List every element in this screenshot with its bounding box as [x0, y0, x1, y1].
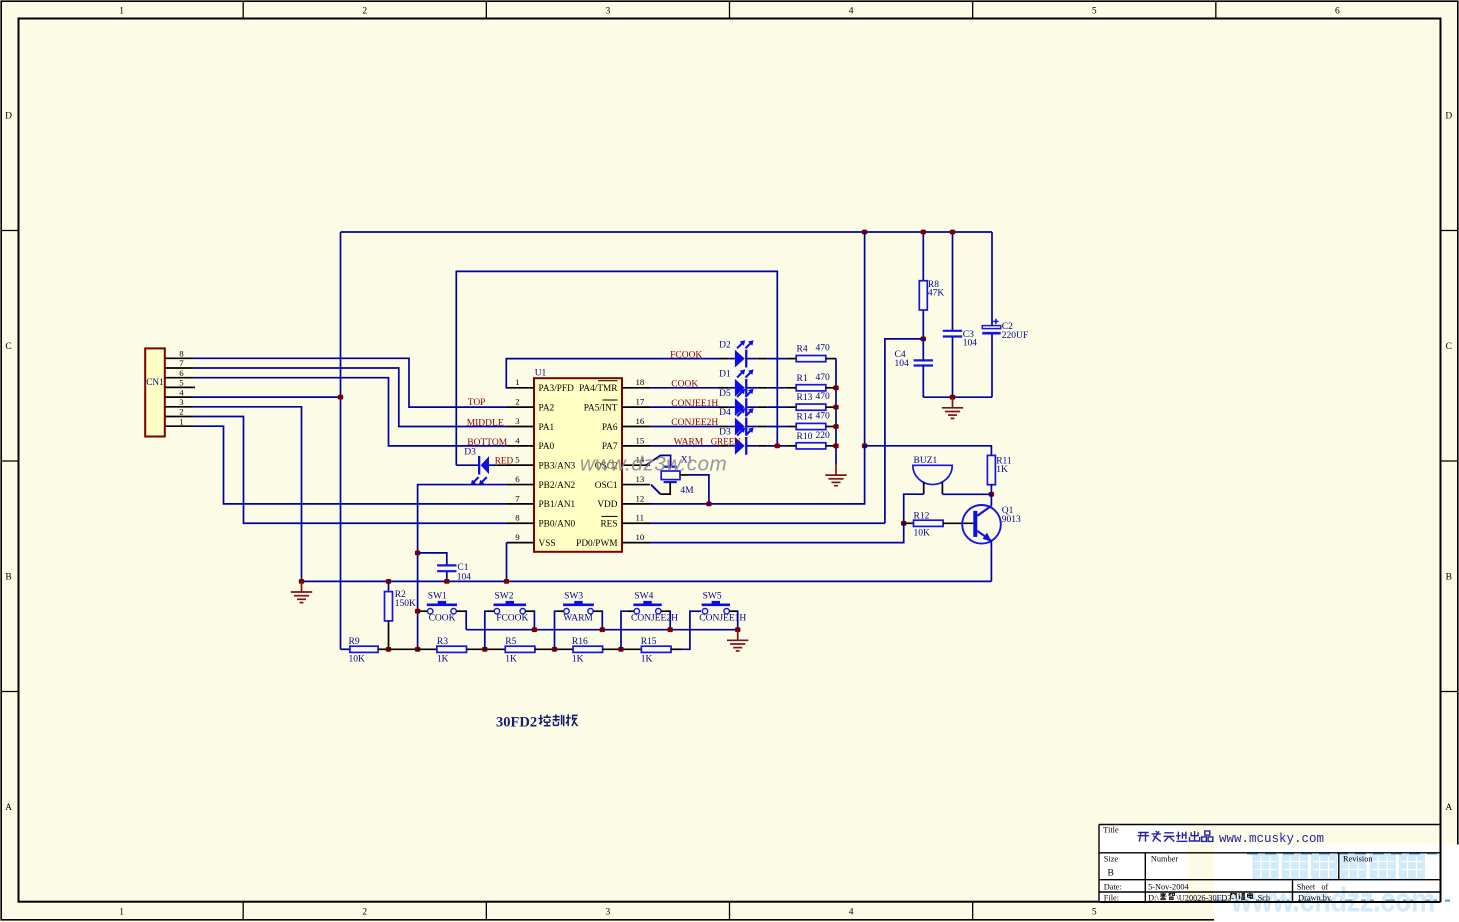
svg-text:220UF: 220UF [1002, 331, 1028, 341]
wire SW2 right drop [526, 610, 535, 629]
R8 designator label [928, 280, 939, 290]
svg-text:WARM: WARM [674, 438, 704, 448]
svg-text:18: 18 [636, 377, 645, 387]
title block Drawn by label [1298, 893, 1332, 902]
net label CONJEE1H [671, 399, 718, 409]
wire red LED row [456, 464, 478, 466]
wire SW1 right drop [457, 610, 467, 629]
wire LED D4 to resistor R14 [747, 426, 796, 428]
node VSS ground junction [504, 579, 509, 584]
wire C1 branch [418, 553, 447, 566]
wire LED D5 to resistor R13 [747, 406, 796, 408]
svg-text:D4: D4 [719, 408, 731, 418]
wire ground rail [302, 580, 992, 582]
node SW3 feed junction [552, 647, 557, 652]
svg-text:R4: R4 [797, 345, 808, 355]
D5 designator label [719, 389, 731, 399]
R14 designator label [797, 413, 813, 423]
svg-text:1: 1 [119, 908, 124, 918]
svg-text:5: 5 [1092, 908, 1097, 918]
resistor R13 [796, 404, 826, 410]
Q1 value label 9013 [1002, 515, 1021, 525]
svg-text:SW2: SW2 [495, 592, 514, 602]
R2 designator label [395, 590, 406, 600]
node LED bus junction 4 [833, 424, 838, 429]
svg-text:470: 470 [816, 373, 831, 383]
CN1 designator label [146, 378, 164, 388]
wire LED D2 to resistor R4 [747, 358, 796, 360]
title block Size label [1104, 854, 1119, 863]
svg-text:OSC1: OSC1 [595, 481, 618, 491]
svg-text:104: 104 [895, 359, 910, 369]
wire PA3 loop (U1 pin5 LED to WARM net) [456, 271, 777, 465]
node switch rail ground junction [735, 627, 740, 632]
R16 value label 1K [572, 655, 584, 665]
LED D5 [735, 389, 754, 416]
svg-text:7: 7 [179, 358, 184, 368]
svg-text:PA3/PFD: PA3/PFD [539, 384, 575, 394]
node LED bus junction 2 [833, 385, 838, 390]
wire R14 right to LED ground bus [826, 426, 836, 428]
R16 designator label [572, 637, 588, 647]
svg-text:VSS: VSS [539, 539, 556, 549]
wire U1 pin12 VDD row [650, 503, 709, 505]
svg-text:www.mcusky.com: www.mcusky.com [1219, 832, 1324, 846]
svg-text:CONJEE1H: CONJEE1H [671, 399, 718, 409]
wire SW2 left feed [485, 611, 494, 649]
svg-text:FCOOK: FCOOK [670, 350, 702, 360]
wire R9 right [378, 648, 388, 650]
wire LED D2 left pin [719, 358, 735, 360]
node X1 / VDD row junction [706, 502, 711, 507]
wire BUZ1 left leg to R12 node [904, 494, 924, 523]
capacitor C1 [437, 565, 456, 571]
svg-text:SW4: SW4 [634, 592, 653, 602]
svg-text:150K: 150K [395, 599, 416, 609]
svg-text:CONJEE1H: CONJEE1H [699, 614, 746, 624]
wire U1 pin16 to LED D4 [650, 426, 719, 428]
wire VDD left vertical (rail to R9) [340, 232, 342, 649]
svg-text:5: 5 [1092, 7, 1097, 17]
svg-text:PA0: PA0 [539, 442, 555, 452]
svg-text:1K: 1K [641, 655, 653, 665]
wire SW3 left feed [555, 611, 564, 649]
wire LED D3 left pin [719, 445, 735, 447]
wire CN1 pin4 to VDD rail vertical [194, 396, 341, 398]
wire U1 pin11 RES row [650, 522, 885, 524]
wire BUZ1 right leg to R11 bottom [942, 493, 991, 495]
svg-text:R5: R5 [505, 637, 516, 647]
svg-text:CN1: CN1 [146, 378, 164, 388]
svg-text:4: 4 [179, 387, 184, 397]
wire U1 pin18 to LED D1 [650, 387, 719, 389]
svg-text:104: 104 [457, 573, 472, 583]
title block white backdrop [1099, 825, 1459, 922]
svg-text:5: 5 [515, 455, 520, 465]
R4 designator label [797, 345, 808, 355]
U1 pin names [539, 381, 619, 549]
svg-text:D:\: D:\ [1148, 893, 1159, 902]
svg-text:PB3/AN3: PB3/AN3 [539, 462, 576, 472]
wire R8 bottom to C4 node [922, 310, 924, 339]
svg-text:PD0/PWM: PD0/PWM [576, 539, 617, 549]
svg-text:2: 2 [362, 908, 367, 918]
svg-text:R15: R15 [641, 637, 657, 647]
title block date value [1148, 882, 1189, 891]
wire BUZ1 right leg [941, 482, 943, 494]
svg-text:220: 220 [816, 431, 831, 441]
svg-text:3: 3 [179, 397, 184, 407]
svg-text:PA6: PA6 [602, 423, 618, 433]
wire CN1 pin2 to U1 pin8 [194, 417, 507, 524]
capacitor C4 [914, 360, 933, 365]
svg-text:R14: R14 [797, 413, 813, 423]
wire red LED to U1 pin5 [489, 464, 534, 466]
C3 value label 104 [963, 338, 978, 348]
svg-text:SW1: SW1 [428, 592, 447, 602]
wire R3 to SW2 feed [467, 648, 506, 650]
svg-text:104: 104 [963, 338, 978, 348]
wire VDD drop to U1 pin12 [709, 446, 865, 504]
node switch rail junction SW2 [532, 627, 537, 632]
SW2 designator label [495, 592, 514, 602]
svg-text:8: 8 [515, 513, 520, 523]
svg-text:2: 2 [179, 407, 183, 417]
title block Date label [1104, 882, 1122, 891]
title block size value B [1108, 869, 1114, 879]
svg-text:\U20026-30FD2-: \U20026-30FD2- [1177, 893, 1235, 902]
switch SW3 [563, 601, 594, 614]
svg-text:PB1/AN1: PB1/AN1 [539, 500, 576, 510]
svg-text:R12: R12 [914, 512, 930, 522]
wire U1 pin14 to X1 top [646, 455, 671, 466]
node WARM row / PA3 loop junction [775, 443, 780, 448]
wire R12 left stub [904, 522, 914, 524]
svg-text:1: 1 [515, 377, 519, 387]
svg-text:Number: Number [1151, 854, 1178, 863]
svg-text:Title: Title [1103, 826, 1119, 835]
resistor R10 [796, 443, 826, 449]
wire VDD vertical drop [864, 232, 866, 446]
switch SW2 [494, 601, 527, 614]
title block Sheet label [1297, 882, 1329, 891]
LED D1 [735, 369, 754, 396]
switch SW1 [427, 601, 457, 614]
CN1 pin stubs [165, 358, 195, 426]
border zone letters A-D [5, 111, 1452, 813]
wire U1 pin15 to LED D3 [650, 445, 719, 447]
wire SW3 right drop [593, 610, 602, 629]
node rail scan junction [415, 647, 420, 652]
svg-text:R10: R10 [797, 432, 813, 442]
svg-text:A: A [1445, 803, 1452, 813]
node SW1 feed junction [415, 609, 420, 614]
svg-text:SW5: SW5 [703, 592, 722, 602]
LED D2 [735, 340, 754, 367]
svg-text:File:: File: [1104, 893, 1119, 902]
wire CN1 pin3 to ground rail [194, 407, 302, 582]
wire LED D5 left pin [719, 406, 735, 408]
title block Title label [1103, 826, 1119, 835]
svg-text:D: D [5, 111, 12, 121]
watermark www.dz3w.com [580, 453, 727, 476]
net label FCOOK (under SW2) [496, 614, 528, 624]
wire key scan line (U1 pin6) [418, 485, 507, 650]
svg-text:4: 4 [849, 7, 854, 17]
wire VDD top rail [341, 231, 993, 233]
svg-text:10: 10 [636, 532, 645, 542]
R11 value label 1K [996, 465, 1008, 475]
svg-text:3: 3 [515, 416, 520, 426]
wire R4 right to LED ground bus [826, 358, 836, 360]
R12 value label 10K [914, 529, 931, 539]
crystal X1 [661, 467, 680, 482]
svg-text:R9: R9 [349, 637, 360, 647]
R13 value label 470 [816, 392, 831, 402]
wire C2 bottom [991, 335, 993, 398]
wire SW5 right drop [730, 610, 738, 629]
svg-text:D2: D2 [719, 340, 731, 350]
wire switch output rail [466, 629, 738, 631]
svg-text:FCOOK: FCOOK [496, 614, 528, 624]
svg-text:5: 5 [179, 378, 184, 388]
wire U1 pin17 to LED D5 [650, 406, 719, 408]
svg-text:470: 470 [816, 412, 831, 422]
wire LED D3 to resistor R10 [747, 445, 796, 447]
svg-text:10K: 10K [349, 655, 366, 665]
wire CN1 pin6 to U1 pin4 (BOTTOM net) [194, 378, 507, 446]
R15 designator label [641, 637, 657, 647]
R15 value label 1K [641, 655, 653, 665]
C4 value label 104 [895, 359, 910, 369]
svg-text:VDD: VDD [597, 500, 617, 510]
ground switch rail [727, 630, 748, 651]
svg-text:PA2: PA2 [539, 403, 555, 413]
wire C2 top [991, 232, 993, 326]
R10 designator label [797, 432, 813, 442]
node LED bus junction 5 [833, 443, 838, 448]
svg-text:D5: D5 [719, 389, 731, 399]
R9 value label 10K [349, 655, 366, 665]
svg-text:Size: Size [1104, 854, 1119, 863]
net label COOK [671, 380, 698, 390]
net label RED [495, 456, 514, 466]
svg-text:1K: 1K [437, 655, 449, 665]
SW4 designator label [634, 592, 653, 602]
SW5 designator label [703, 592, 722, 602]
node switch rail junction SW3 [600, 627, 605, 632]
wire SW1 left feed [418, 610, 428, 612]
R5 designator label [505, 637, 516, 647]
svg-text:TOP: TOP [468, 398, 486, 408]
svg-text:PA5/INT: PA5/INT [584, 403, 618, 413]
U1 pin stubs [507, 388, 651, 543]
wire R9 left [341, 648, 350, 650]
R1 designator label [797, 374, 808, 384]
svg-text:MIDDLE: MIDDLE [467, 419, 504, 429]
wire U1 pin13 to X1 bottom [651, 482, 670, 494]
node VDD / R11 branch junction [862, 443, 867, 448]
BUZ1 designator label [914, 456, 938, 466]
resistor R1 [796, 385, 826, 391]
svg-text:4M: 4M [680, 486, 694, 496]
svg-text:10K: 10K [914, 529, 931, 539]
switch SW5 [702, 601, 730, 614]
watermark blue dashes [1214, 853, 1450, 900]
node R2 top junction [386, 579, 391, 584]
node switch rail junction SW4 [668, 627, 673, 632]
svg-text:C: C [1446, 342, 1452, 352]
svg-text:1K: 1K [505, 655, 517, 665]
resistor R8 [919, 281, 927, 310]
title block file path [1148, 893, 1271, 902]
wire R12 right to Q1 base [943, 522, 973, 524]
wire LED D1 to resistor R1 [747, 387, 796, 389]
svg-text:6: 6 [179, 368, 184, 378]
wire CN1 pin8 to U1 pin2 (TOP net) [194, 358, 507, 407]
svg-text:Drawn by: Drawn by [1298, 893, 1332, 902]
C2 plus sign [993, 319, 998, 324]
D1 designator label [719, 370, 731, 380]
net label TOP [468, 398, 486, 408]
svg-text:15: 15 [636, 435, 645, 445]
svg-text:Date:: Date: [1104, 882, 1122, 891]
svg-text:4: 4 [849, 908, 854, 918]
U1 pin numbers 1-18 [515, 377, 645, 542]
svg-text:D1: D1 [719, 370, 731, 380]
svg-text:5-Nov-2004: 5-Nov-2004 [1148, 882, 1189, 891]
svg-text:PA1: PA1 [539, 423, 555, 433]
svg-text:1: 1 [179, 416, 183, 426]
svg-text:D: D [1445, 111, 1452, 121]
resistor R4 [796, 356, 826, 362]
ground LED bus [825, 465, 846, 486]
R3 value label 1K [437, 655, 449, 665]
node capacitor rail ground junction [950, 395, 955, 400]
wire R10 right to LED ground bus [826, 445, 836, 447]
resistor R15 [641, 646, 671, 652]
C4 designator label [895, 350, 906, 360]
switch SW4 [633, 601, 661, 614]
SW3 designator label [564, 592, 583, 602]
resistor R2 [385, 592, 393, 621]
svg-text:1K: 1K [572, 655, 584, 665]
wire R15 right to SW5 [671, 611, 701, 649]
svg-text:GREEN: GREEN [711, 437, 741, 447]
wire SW4 right drop [661, 610, 670, 629]
wire R11 bottom [990, 485, 992, 495]
SW1 designator label [428, 592, 447, 602]
svg-text:9013: 9013 [1002, 515, 1021, 525]
U1 designator label [535, 369, 547, 379]
svg-text:2: 2 [515, 397, 519, 407]
wire RES net to C4 node [885, 339, 923, 523]
svg-text:6: 6 [1335, 7, 1340, 17]
svg-text:B: B [1446, 572, 1452, 582]
R10 value label 220 [816, 431, 831, 441]
wire BUZ1 left leg [923, 482, 925, 494]
svg-text:U1: U1 [535, 369, 547, 379]
svg-text:WARM: WARM [563, 614, 593, 624]
svg-text:R3: R3 [437, 637, 448, 647]
C1 value label 104 [457, 573, 472, 583]
svg-text:7: 7 [515, 493, 520, 503]
D2 designator label [719, 340, 731, 350]
resistor R16 [573, 646, 603, 652]
C2 value label 220UF [1002, 331, 1028, 341]
svg-text:.Sch: .Sch [1256, 893, 1271, 902]
node C1 branch junction [415, 551, 420, 556]
svg-text:B: B [5, 572, 11, 582]
C3 designator label [963, 330, 974, 340]
node VDD rail junction C3 [950, 230, 955, 235]
D3 red designator label [464, 448, 476, 458]
net label FCOOK [670, 350, 702, 360]
node LED bus junction 3 [833, 405, 838, 410]
op-amp U1 body (microcontroller box) [534, 378, 622, 552]
wire C4 bottom [922, 366, 924, 398]
wire R16 to SW4 feed [603, 648, 642, 650]
wire LED D4 left pin [719, 426, 735, 428]
svg-text:4: 4 [515, 435, 520, 445]
wire C3 top [952, 232, 954, 331]
wire CN1 pin1 to U1 pin7 [194, 426, 507, 504]
R5 value label 1K [505, 655, 517, 665]
wire C4 top [922, 339, 924, 361]
node R12 left junction [901, 521, 906, 526]
R11 designator label [996, 456, 1012, 466]
svg-text:2: 2 [362, 7, 367, 17]
wire U1 pin1 to FCOOK row [506, 359, 718, 388]
R3 designator label [437, 637, 448, 647]
svg-text:RES: RES [600, 520, 617, 530]
wire rail to R3 [418, 648, 437, 650]
svg-text:470: 470 [816, 392, 831, 402]
X1 designator label [681, 456, 693, 466]
svg-text:R1: R1 [797, 374, 808, 384]
svg-text:16: 16 [636, 416, 645, 426]
svg-text:8: 8 [179, 349, 184, 359]
net label BOTTOM [467, 438, 507, 448]
svg-text:30FD2: 30FD2 [496, 715, 537, 731]
C1 designator label [457, 563, 468, 573]
svg-text:9: 9 [515, 532, 520, 542]
svg-text:B: B [1108, 869, 1114, 879]
node VDD rail junction R8 [921, 230, 926, 235]
connector CN1 body [145, 348, 165, 436]
wire U1 pin10 PWM row [650, 523, 904, 542]
sheet title 30FD2 control board [496, 714, 578, 730]
wire R2 top [388, 581, 390, 591]
wire X1 right to VDD row [680, 475, 709, 504]
LED D3 (RED) [471, 456, 489, 485]
net label COOK (under SW1) [429, 614, 456, 624]
resistor R14 [796, 423, 826, 429]
svg-text:PA7: PA7 [602, 442, 618, 452]
watermark www.cndzz.com [1230, 881, 1435, 920]
svg-text:12: 12 [636, 493, 645, 503]
wire R8 top [922, 232, 924, 281]
svg-text:6: 6 [515, 474, 520, 484]
node ground rail CN1 pin3 [299, 579, 304, 584]
net label WARM [674, 438, 704, 448]
D3 designator label [719, 428, 731, 438]
wire SW4 left feed [621, 611, 634, 649]
D4 designator label [719, 408, 731, 418]
LED D4 [735, 408, 754, 435]
wire Q1 emitter to ground rail [990, 541, 992, 582]
net label CONJEE2H [671, 418, 718, 428]
